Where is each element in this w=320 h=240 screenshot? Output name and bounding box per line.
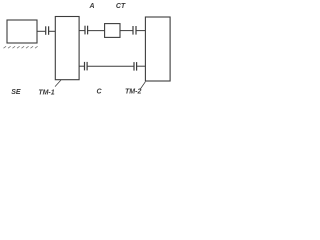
svg-text:CT: CT bbox=[116, 3, 126, 10]
capacitor A bbox=[84, 26, 86, 35]
box TM-1 (turbine module 1) bbox=[55, 17, 79, 80]
svg-text:TM-1: TM-1 bbox=[38, 89, 54, 96]
svg-text:C: C bbox=[96, 88, 102, 95]
wire capacitor CT to TM-2 bbox=[136, 30, 145, 32]
wire capacitor A to box A bbox=[88, 30, 105, 32]
capacitor C (right pair) bbox=[133, 62, 135, 71]
wire between bottom capacitors bbox=[87, 65, 133, 67]
ground hatching under SE bbox=[4, 46, 38, 48]
wire TM-1 bottom to capacitor C bbox=[79, 65, 84, 67]
box SE (steam generator) bbox=[7, 20, 37, 43]
capacitor C (left pair) bbox=[84, 62, 86, 71]
svg-text:A: A bbox=[88, 3, 94, 10]
capacitor CT bbox=[132, 26, 134, 35]
leader line TM-1 label bbox=[55, 80, 61, 87]
wire box A to capacitor CT bbox=[120, 30, 133, 32]
svg-text:SE: SE bbox=[11, 89, 21, 96]
leader line TM-2 label bbox=[140, 82, 145, 90]
box A bbox=[105, 24, 120, 38]
wire SE to capacitor bbox=[37, 30, 45, 32]
capacitor (SE-TM-1 link) bbox=[45, 26, 47, 35]
wire TM-1 to capacitor A bbox=[79, 30, 85, 32]
svg-text:TM-2: TM-2 bbox=[125, 88, 141, 95]
wire capacitor to TM-2 bottom bbox=[137, 65, 145, 67]
wire capacitor to TM-1 bbox=[49, 30, 55, 32]
box TM-2 (turbine module 2) bbox=[145, 17, 170, 81]
